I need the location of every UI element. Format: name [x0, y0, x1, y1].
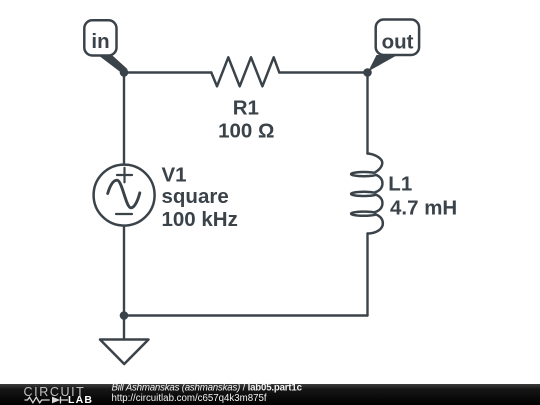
svg-text:square: square: [162, 185, 229, 208]
svg-text:4.7 mH: 4.7 mH: [390, 196, 457, 219]
svg-text:V1: V1: [162, 164, 187, 187]
svg-text:100 kHz: 100 kHz: [162, 208, 238, 231]
svg-text:L1: L1: [388, 173, 412, 196]
svg-text:out: out: [382, 31, 414, 54]
svg-text:LAB: LAB: [68, 394, 93, 405]
svg-text:http://circuitlab.com/c657q4k3: http://circuitlab.com/c657q4k3m875f: [112, 393, 267, 404]
svg-text:100 Ω: 100 Ω: [218, 119, 274, 142]
svg-text:R1: R1: [233, 97, 259, 120]
svg-text:in: in: [91, 30, 109, 53]
